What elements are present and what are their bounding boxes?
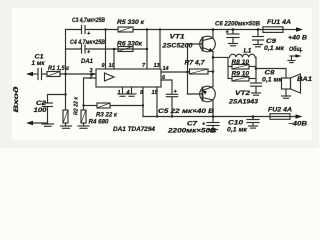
svg-text:DA1 TDA7294: DA1 TDA7294	[113, 127, 156, 133]
capacitor C9	[257, 30, 259, 37]
svg-text:R4 680: R4 680	[89, 120, 110, 126]
wire +V rail	[133, 29, 263, 31]
svg-text:0,1 мк: 0,1 мк	[227, 128, 248, 134]
wire row1 left	[66, 29, 82, 31]
svg-text:C10: C10	[228, 121, 244, 127]
svg-text:R1 1,5 к: R1 1,5 к	[48, 66, 70, 72]
pin 1 ground	[122, 87, 124, 94]
ground C8	[252, 92, 261, 94]
node pin3 arrow	[91, 72, 97, 76]
wire pin7 vertical	[146, 30, 148, 70]
wire to speaker	[256, 69, 286, 79]
svg-text:C3 4,7мк×25В: C3 4,7мк×25В	[72, 18, 106, 24]
resistor R4	[81, 110, 86, 123]
wire R3 row	[84, 105, 98, 107]
resistor R9	[232, 77, 249, 82]
inductor L1	[230, 54, 256, 57]
svg-text:Вход: Вход	[14, 86, 20, 112]
resistor R7	[190, 69, 209, 74]
resistor R8	[232, 65, 249, 70]
wire pin2 feedback drop	[84, 78, 97, 106]
capacitor C7	[212, 117, 214, 123]
capacitor C5	[166, 93, 177, 95]
svg-text:Общ.: Общ.	[289, 46, 303, 53]
svg-text:C6 2200мк×50В: C6 2200мк×50В	[215, 22, 261, 28]
svg-text:R8 10: R8 10	[232, 60, 250, 66]
svg-text:C5 22 мк×40 В: C5 22 мк×40 В	[158, 109, 215, 115]
wire -V rail	[143, 116, 270, 118]
svg-text:FU2 4A: FU2 4A	[268, 108, 292, 114]
ground R2	[61, 125, 72, 127]
wire pin6 to C5	[161, 80, 172, 94]
svg-text:R5 330 к: R5 330 к	[117, 20, 145, 26]
svg-text:DA1: DA1	[81, 59, 94, 65]
wire R2 drop	[65, 74, 67, 110]
svg-text:R6 330к: R6 330к	[117, 42, 143, 48]
svg-text:0,1 мк: 0,1 мк	[264, 46, 285, 52]
fuse FU1	[263, 27, 283, 33]
wire pin8 drop	[142, 87, 144, 117]
svg-text:1: 1	[118, 90, 121, 96]
svg-text:100: 100	[34, 108, 48, 114]
wire R1 to IC pin3	[60, 73, 96, 75]
fuse FU2	[270, 114, 290, 120]
svg-text:15: 15	[152, 90, 159, 96]
capacitor C8	[251, 82, 262, 84]
svg-text:R9 10: R9 10	[232, 72, 250, 78]
input arrow top	[26, 72, 33, 76]
svg-text:VT1: VT1	[170, 35, 186, 41]
svg-text:1 мк: 1 мк	[32, 61, 46, 67]
wire pin15 drop	[156, 87, 158, 117]
svg-text:0,1 мк: 0,1 мк	[262, 78, 283, 84]
ground C2	[42, 123, 54, 125]
resistor R6	[118, 47, 133, 52]
svg-text:C7: C7	[187, 122, 198, 128]
wire pin14 out	[161, 71, 188, 73]
transistor Q2 VT2	[200, 86, 216, 102]
svg-text:+40 В: +40 В	[288, 36, 308, 42]
resistor R3	[97, 103, 110, 108]
capacitor C10	[252, 117, 254, 120]
resistor R1	[47, 72, 60, 77]
ground R4	[78, 125, 89, 127]
svg-text:14: 14	[163, 66, 169, 72]
pin 4 ground	[131, 87, 133, 94]
svg-text:ВА1: ВА1	[297, 77, 313, 83]
common terminal	[290, 55, 297, 57]
wire -40V arrow	[296, 114, 303, 118]
svg-text:R3 22 к: R3 22 к	[96, 113, 118, 119]
svg-text:2200мк×50В: 2200мк×50В	[167, 129, 217, 135]
wire L1 stubs	[227, 57, 229, 78]
svg-text:R7 4,7: R7 4,7	[185, 61, 206, 67]
svg-text:10: 10	[109, 63, 115, 69]
wire pin9 vertical	[105, 30, 107, 70]
wire +40V arrow	[283, 29, 297, 31]
capacitor C2	[43, 102, 53, 104]
scan margins	[12, 8, 312, 140]
svg-text:2: 2	[89, 75, 93, 81]
speaker BA1	[282, 78, 291, 89]
wire row2 left	[66, 48, 82, 50]
svg-text:C2: C2	[36, 101, 47, 107]
svg-text:C4 4,7мк×25В: C4 4,7мк×25В	[70, 40, 106, 46]
svg-text:L1: L1	[244, 49, 253, 55]
svg-text:FU1 4A: FU1 4A	[267, 20, 291, 26]
resistor R2	[63, 110, 68, 123]
svg-text:−40В: −40В	[288, 122, 308, 128]
wire input ground line	[32, 122, 48, 124]
capacitor C1	[37, 69, 39, 80]
capacitor C3	[81, 26, 83, 34]
wire R4 stub	[83, 106, 85, 111]
transistor Q1 VT1	[200, 36, 216, 52]
svg-text:3: 3	[90, 68, 93, 74]
svg-text:2SA1943: 2SA1943	[228, 100, 259, 106]
svg-text:R2 22 к: R2 22 к	[74, 96, 80, 115]
capacitor C6	[232, 30, 234, 35]
wire pin13 vertical	[159, 30, 161, 70]
capacitor C4	[81, 45, 83, 53]
wire bases vertical	[187, 44, 189, 94]
svg-text:C1: C1	[35, 55, 45, 61]
wire output node to L1	[213, 56, 228, 58]
svg-text:4: 4	[126, 90, 130, 96]
resistor R5	[118, 27, 133, 32]
svg-text:2SC5200: 2SC5200	[161, 44, 193, 50]
svg-text:C8: C8	[265, 71, 276, 77]
svg-text:VT2: VT2	[235, 91, 251, 97]
node A	[64, 73, 67, 76]
wire pin10 vertical	[113, 49, 115, 69]
wire input line	[32, 73, 38, 75]
svg-text:13: 13	[154, 63, 160, 69]
input arrow bottom	[26, 121, 33, 125]
svg-text:C9: C9	[266, 39, 277, 45]
wire C2 branch	[48, 95, 66, 104]
op-amp U1 TDA7294 box	[96, 69, 161, 87]
wire vertical C3/C4 left leg	[65, 30, 67, 75]
